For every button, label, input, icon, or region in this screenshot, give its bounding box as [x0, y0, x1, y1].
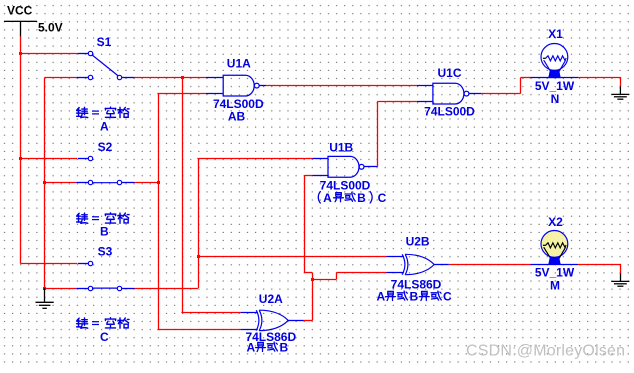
svg-text:CSDN:@MorleyOlsen: CSDN:@MorleyOlsen — [466, 343, 625, 360]
svg-text:C: C — [378, 191, 387, 205]
wire gnd to S3 pin2 — [44, 288, 76, 290]
wire to X1 left pin — [521, 77, 531, 79]
svg-text:A: A — [323, 191, 332, 205]
wire U1A output to U1C input1 — [266, 85, 417, 87]
ground symbol right of X2 — [620, 273, 622, 281]
ground symbol bottom-left — [44, 288, 46, 302]
lamp X2 (lit) — [531, 264, 579, 266]
svg-text:X2: X2 — [548, 215, 563, 229]
svg-text:VCC: VCC — [7, 4, 33, 18]
U1B input pin 2 — [312, 175, 328, 177]
wire gnd to S2 pin2 — [44, 182, 76, 184]
wire net B riser vertical — [158, 94, 160, 330]
wire to U2B input2 — [337, 272, 387, 274]
svg-text:C: C — [100, 330, 109, 344]
wire riser to lamp X1 row — [520, 78, 522, 94]
wire gnd to S1 pin2 — [45, 77, 77, 79]
wire red drop to ground 1 — [620, 77, 622, 86]
wire net C riser up — [198, 158, 200, 288]
wire net A to U2A input1 — [181, 312, 240, 314]
wire U1B output riser up — [377, 102, 379, 167]
svg-text:5V_1W: 5V_1W — [535, 266, 575, 280]
wire VCC to S2 pin1 — [20, 158, 78, 160]
svg-text:U1A: U1A — [227, 57, 251, 71]
svg-text:S1: S1 — [97, 35, 112, 49]
svg-text:X1: X1 — [548, 27, 563, 41]
U2A input pin 1 — [241, 312, 258, 314]
wire net B to U2A input2 — [157, 329, 240, 331]
svg-text:B: B — [357, 191, 366, 205]
svg-text:M: M — [550, 279, 560, 293]
wire U1B output to U1C input2 — [377, 101, 417, 103]
svg-text:U1B: U1B — [329, 140, 353, 154]
junction net B — [157, 181, 160, 184]
U1A output pin — [259, 85, 266, 87]
wire jog right — [304, 272, 312, 274]
svg-text:U2B: U2B — [406, 235, 430, 249]
wire junction to right — [312, 279, 337, 281]
U1C input pin 2 — [417, 101, 433, 103]
wire net A: S1 common to U1A input1 — [134, 77, 206, 79]
lamp X1 (off) — [531, 77, 579, 79]
NAND gate U1B 74LS00D — [328, 156, 359, 177]
wire U1C output right — [481, 93, 520, 95]
wire U2B output to lamp X2 — [449, 264, 531, 266]
svg-text:74LS00D: 74LS00D — [424, 105, 475, 119]
wire net C to U1B input1 — [197, 158, 312, 160]
wire VCC to S1 pin1 — [20, 53, 78, 55]
U1A input pin 2 — [206, 93, 223, 95]
switch S2 — [78, 158, 88, 160]
svg-text:S3: S3 — [98, 245, 113, 259]
junction VCC/S1 — [19, 52, 22, 55]
wire VCC rail vertical — [20, 37, 22, 264]
wire X2 right pin to ground — [578, 264, 620, 266]
svg-text:C: C — [443, 290, 452, 304]
svg-text:B: B — [410, 290, 419, 304]
NAND gate U1C 74LS00D — [433, 83, 464, 104]
wire net B to U1A input2 — [157, 93, 206, 95]
NAND gate U1A 74LS00D — [223, 75, 254, 96]
junction A-xor-B node — [311, 278, 314, 281]
U1C output pin — [469, 93, 481, 95]
VCC power symbol — [4, 21, 37, 22]
junction gnd/S2 — [43, 181, 46, 184]
svg-text:A: A — [247, 340, 256, 354]
caption key=space A — [77, 107, 88, 117]
U1A input pin 1 — [206, 77, 223, 79]
wire net C: S3 common right — [134, 288, 198, 290]
junction gnd/S3 — [43, 287, 46, 290]
svg-text:B: B — [100, 225, 109, 239]
U2B output pin — [434, 264, 449, 266]
U2B input pin 1 — [386, 256, 403, 258]
junction net A — [181, 76, 184, 79]
wire jog up — [336, 272, 338, 279]
caption key=space C — [77, 318, 88, 328]
svg-text:N: N — [551, 92, 560, 106]
U2A output pin — [288, 320, 304, 322]
wire net C to U2B input1 — [197, 256, 386, 258]
svg-text:U2A: U2A — [259, 292, 283, 306]
wire X1 right pin to ground — [578, 77, 620, 79]
wire VCC to S3 pin1 — [21, 263, 78, 265]
wire U2A output red stub — [304, 320, 313, 322]
wire net B: S2 common to junction — [134, 182, 158, 184]
ground symbol right of X1 — [619, 86, 621, 94]
svg-text:S2: S2 — [98, 140, 113, 154]
svg-text:U1C: U1C — [437, 66, 461, 80]
U1C input pin 1 — [417, 85, 433, 87]
caption key=space B — [77, 213, 88, 223]
svg-text:A: A — [377, 290, 386, 304]
switch S3 — [78, 263, 88, 265]
svg-text:5.0V: 5.0V — [38, 20, 63, 34]
U2B input pin 2 — [386, 272, 403, 274]
wire net A riser down — [182, 78, 184, 313]
wire U1B input2 riser down — [304, 175, 306, 272]
junction VCC/S2 — [19, 157, 22, 160]
wire ground rail vertical — [44, 78, 46, 289]
U1B input pin 1 — [313, 158, 329, 160]
wire red drop to ground 2 — [620, 264, 622, 273]
U1B output pin — [364, 166, 377, 168]
XOR gate U2A 74LS86D — [256, 310, 259, 330]
svg-text:A: A — [100, 119, 109, 133]
svg-text:B: B — [280, 340, 289, 354]
U2A input pin 2 — [241, 329, 258, 331]
switch S1 — [78, 53, 88, 55]
wire down to U2A output node — [312, 272, 314, 320]
wire U1B input2 stub red — [305, 175, 313, 177]
label (A xor B) C — [318, 192, 320, 204]
junction net C — [197, 255, 200, 258]
svg-text:5V_1W: 5V_1W — [535, 79, 575, 93]
svg-text:AB: AB — [228, 110, 246, 124]
XOR gate U2B 74LS86D — [402, 254, 405, 274]
